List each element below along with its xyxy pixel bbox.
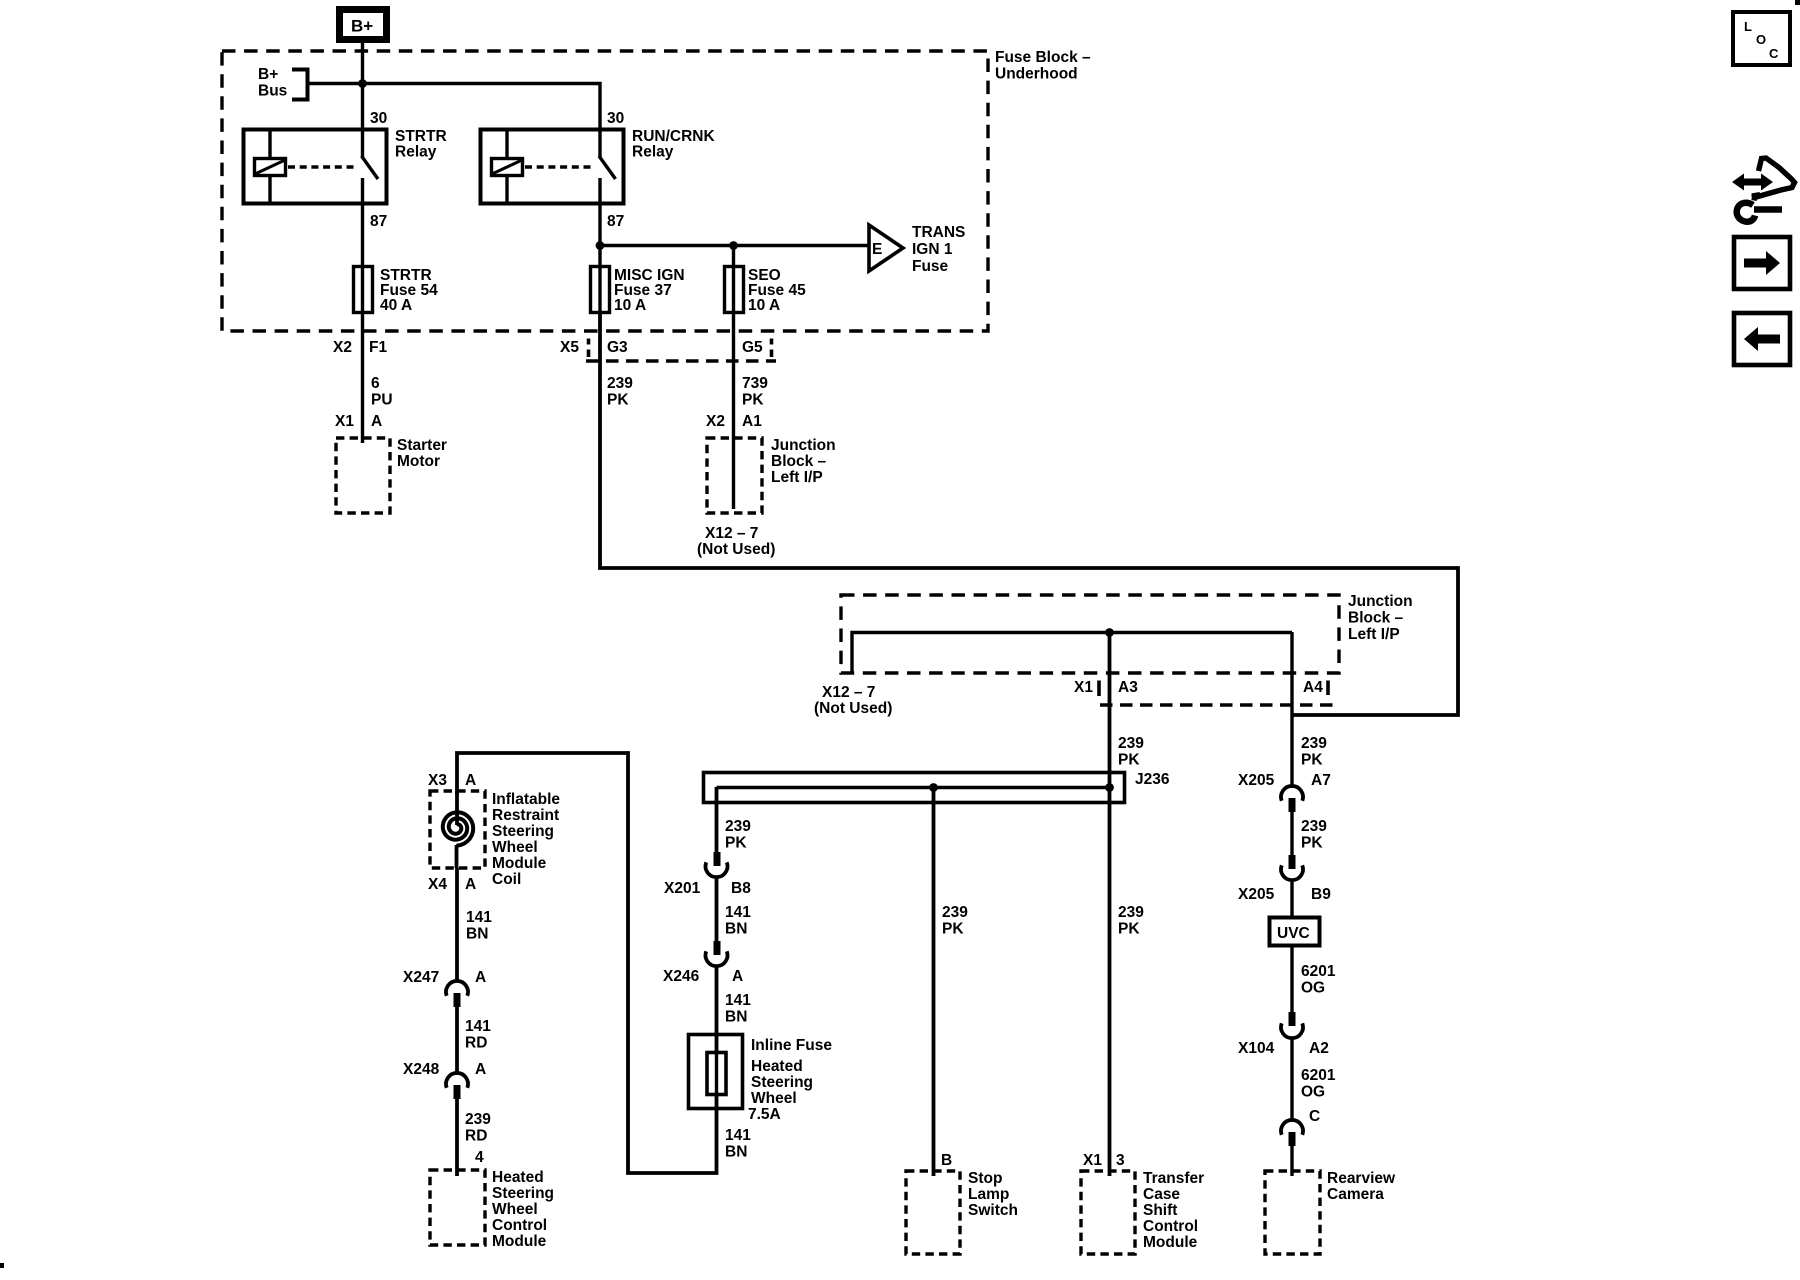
relay RUN/CRNK [481,129,624,204]
inflatable restraint steering wheel module coil [430,791,560,888]
svg-text:X201: X201 [664,880,701,897]
wire J236 left drop [715,787,719,853]
label 6201 OG upper [1301,963,1336,997]
label 239 PK transfer case [1118,904,1144,938]
node 87 junction [596,241,605,250]
wire A3 down to J236 [1108,632,1112,788]
svg-text:(Not Used): (Not Used) [697,541,775,558]
svg-text:OG: OG [1301,980,1325,997]
wire RUN/CRNK 87 down to MISC IGN fuse [598,203,601,267]
svg-text:Steering: Steering [751,1074,813,1091]
svg-text:A3: A3 [1118,679,1138,696]
svg-text:TRANS: TRANS [912,224,965,241]
svg-text:PK: PK [1118,752,1140,769]
rearview camera [1265,1170,1396,1254]
relay STRTR [244,129,387,204]
svg-text:PK: PK [742,392,764,409]
wire B+ down to STRTR relay pin 30 [361,43,364,130]
svg-text:PU: PU [371,392,393,409]
svg-text:87: 87 [607,213,624,230]
wire STRTR 87 to fuse 54 [361,203,364,267]
svg-text:3: 3 [1116,1152,1125,1169]
svg-text:Relay: Relay [632,144,674,161]
svg-text:X3: X3 [428,772,447,789]
svg-text:PK: PK [607,392,629,409]
svg-text:40 A: 40 A [380,297,412,314]
svg-text:B+: B+ [258,66,278,83]
fuse STRTR Fuse 54 40 A [354,266,439,314]
svg-text:PK: PK [725,835,747,852]
node J236 stop lamp tap [929,783,938,792]
svg-text:Stop: Stop [968,1170,1002,1187]
svg-text:739: 739 [742,375,768,392]
svg-text:Shift: Shift [1143,1202,1177,1219]
corner speck bottom left [0,1263,4,1268]
svg-text:Underhood: Underhood [995,66,1078,83]
wire inline fuse to coil feed loop [457,753,717,1173]
svg-text:B8: B8 [731,880,751,897]
svg-text:C: C [1769,46,1779,61]
off-page arrow E TRANS IGN 1 Fuse [869,224,965,275]
svg-text:X2: X2 [333,339,352,356]
svg-text:RUN/CRNK: RUN/CRNK [632,128,715,145]
svg-text:141: 141 [725,992,751,1009]
connector X104 A2 [1238,1012,1329,1057]
heated steering wheel control module [430,1169,554,1250]
wire SEO branch down [732,245,735,267]
wire J236 to transfer case module [1108,788,1112,1176]
wire to TRANS IGN 1 fuse arrow [600,244,869,247]
label 239 RD [465,1111,491,1145]
label 739 PK [742,375,768,409]
svg-text:239: 239 [725,818,751,835]
svg-text:30: 30 [607,110,624,127]
svg-text:G5: G5 [742,339,763,356]
wire coil to X247 [455,868,459,981]
svg-text:O: O [1756,32,1766,47]
svg-text:Fuse: Fuse [912,258,949,275]
svg-text:BN: BN [725,1009,747,1026]
svg-text:X1: X1 [335,413,354,430]
svg-text:X1: X1 [1083,1152,1102,1169]
wire MISC IGN long feed to junction block A4 [600,312,1458,715]
junction block left IP upper [707,437,836,513]
svg-text:Heated: Heated [751,1058,803,1075]
svg-text:Rearview: Rearview [1327,1170,1396,1187]
svg-text:Coil: Coil [492,871,521,888]
label X12-7 not used upper [697,525,775,558]
wire SEO fuse down to junction block A1 [732,312,735,509]
wire B+ bus horizontal to RUN/CRNK pin 30 [308,84,601,131]
svg-text:X246: X246 [663,968,700,985]
label STRTR Relay [395,128,447,161]
svg-text:239: 239 [1118,735,1144,752]
svg-text:Steering: Steering [492,823,554,840]
svg-text:B+: B+ [351,17,373,36]
label circuit 6 PU [371,375,393,409]
svg-text:A2: A2 [1309,1040,1329,1057]
svg-text:STRTR: STRTR [395,128,447,145]
connector X246 A [663,941,743,985]
connector X205 A7 [1281,786,1303,812]
svg-text:BN: BN [725,921,747,938]
wire X248 to control module [455,1099,459,1176]
svg-text:(Not Used): (Not Used) [814,700,892,717]
label X3 A [428,772,476,789]
svg-text:PK: PK [1301,835,1323,852]
wire A7 to B9 [1290,812,1293,856]
wire X201 to X246 [715,877,719,942]
svg-text:141: 141 [725,1127,751,1144]
svg-text:6: 6 [371,375,380,392]
svg-text:239: 239 [942,904,968,921]
svg-text:Control: Control [1143,1218,1198,1235]
svg-text:A4: A4 [1303,679,1323,696]
junction block left IP lower [841,593,1413,673]
svg-text:Transfer: Transfer [1143,1170,1204,1187]
svg-text:A1: A1 [742,413,762,430]
svg-text:Bus: Bus [258,83,287,100]
connector C [1281,1120,1303,1146]
wire STRTR fuse down to starter motor [361,312,364,443]
label 6201 OG lower [1301,1067,1336,1101]
node B+ bus junction [358,79,367,88]
svg-text:6201: 6201 [1301,963,1336,980]
svg-text:30: 30 [370,110,387,127]
svg-text:Module: Module [1143,1234,1198,1251]
label X4 A [428,876,476,893]
svg-text:Junction: Junction [771,437,836,454]
svg-text:X104: X104 [1238,1040,1275,1057]
back arrow box [1734,313,1790,365]
svg-text:A: A [475,1061,486,1078]
wire X104 to connector C [1290,1038,1293,1121]
svg-text:PK: PK [942,921,964,938]
wire X247 to X248 [455,1007,459,1073]
svg-text:Relay: Relay [395,144,437,161]
svg-text:X248: X248 [403,1061,440,1078]
svg-text:239: 239 [1301,818,1327,835]
wire C to rearview camera [1290,1146,1293,1176]
label 239 PK stop lamp [942,904,968,938]
svg-text:Wheel: Wheel [492,1201,538,1218]
inline fuse heated steering wheel 7.5A [689,1035,833,1124]
label RUN/CRNK Relay [632,128,715,161]
wire B9 to UVC [1290,880,1293,918]
svg-text:239: 239 [607,375,633,392]
svg-text:PK: PK [1118,921,1140,938]
label X12-7 not used lower [814,684,892,717]
svg-text:X12 – 7: X12 – 7 [822,684,875,701]
label X2 F1 [333,339,387,356]
svg-text:Inflatable: Inflatable [492,791,560,808]
wire UVC to X104 [1290,946,1293,1013]
svg-text:IGN 1: IGN 1 [912,241,953,258]
stop lamp switch [906,1170,1018,1254]
label 141 BN coil [466,909,492,943]
label 239 PK at A3 [1118,735,1144,769]
svg-text:Left I/P: Left I/P [1348,626,1400,643]
wire A4 down to camera branch [1290,632,1293,788]
svg-text:239: 239 [1118,904,1144,921]
label X1 3 [1083,1152,1125,1169]
svg-text:PK: PK [1301,752,1323,769]
svg-text:Lamp: Lamp [968,1186,1009,1203]
svg-text:Inline Fuse: Inline Fuse [751,1037,832,1054]
label X2 A1 [706,413,762,430]
svg-text:X205: X205 [1238,886,1275,903]
svg-text:Module: Module [492,855,547,872]
svg-text:X205: X205 [1238,772,1275,789]
svg-text:B9: B9 [1311,886,1331,903]
hotlink scribble icon [1732,158,1795,222]
fuse SEO Fuse 45 10 A [725,266,807,314]
label 239 PK at A4 [1301,735,1327,769]
svg-text:10 A: 10 A [614,297,646,314]
label 239 PK heated steering feed [725,818,751,852]
svg-text:RD: RD [465,1035,487,1052]
svg-text:Fuse Block –: Fuse Block – [995,49,1091,66]
connector X205 B9 [1238,855,1331,903]
splice pack J236 [704,771,1170,803]
label 239 PK MISC IGN [607,375,633,409]
svg-text:A: A [371,413,382,430]
starter motor module [336,437,447,513]
svg-text:A: A [732,968,743,985]
svg-text:G3: G3 [607,339,628,356]
svg-text:141: 141 [465,1018,491,1035]
B+ terminal [340,10,387,40]
svg-text:Restraint: Restraint [492,807,559,824]
svg-text:Starter: Starter [397,437,447,454]
svg-text:141: 141 [725,904,751,921]
label 141 BN mid [725,992,751,1026]
node A3 junction [1105,628,1114,637]
label X1 A starter [335,413,382,430]
svg-text:239: 239 [1301,735,1327,752]
svg-text:Heated: Heated [492,1169,544,1186]
svg-text:X2: X2 [706,413,725,430]
svg-text:A: A [465,876,476,893]
label 141 RD [465,1018,491,1052]
svg-text:Wheel: Wheel [751,1090,797,1107]
Fuse Block - Underhood box [222,51,988,331]
svg-text:C: C [1309,1108,1320,1125]
svg-text:Control: Control [492,1217,547,1234]
corner speck top right [1795,0,1800,5]
label 239 PK camera [1301,818,1327,852]
node SEO branch junction [729,241,738,250]
svg-text:Motor: Motor [397,453,440,470]
label 141 BN below fuse [725,1127,751,1161]
svg-text:Left I/P: Left I/P [771,469,823,486]
transfer case shift control module [1081,1170,1204,1254]
svg-text:Steering: Steering [492,1185,554,1202]
svg-text:Block –: Block – [1348,610,1404,627]
label 141 BN upper [725,904,751,938]
svg-text:X12 – 7: X12 – 7 [705,525,758,542]
connector X5 strip [560,339,776,362]
connector X1 strip lower [1074,679,1335,705]
LOC legend box [1733,12,1790,65]
svg-text:6201: 6201 [1301,1067,1336,1084]
svg-text:A: A [475,969,486,986]
svg-text:A7: A7 [1311,772,1331,789]
svg-text:OG: OG [1301,1084,1325,1101]
svg-text:239: 239 [465,1111,491,1128]
svg-text:X1: X1 [1074,679,1093,696]
svg-text:Case: Case [1143,1186,1180,1203]
UVC in-line component [1270,918,1320,946]
connector X201 B8 [664,852,751,897]
svg-text:BN: BN [466,926,488,943]
svg-text:X4: X4 [428,876,447,893]
svg-text:J236: J236 [1135,771,1170,788]
svg-text:X247: X247 [403,969,439,986]
wire internal bus of junction block [852,633,1292,674]
forward arrow box [1734,237,1790,289]
node J236 right tap [1105,783,1114,792]
svg-text:A: A [465,772,476,789]
connector X247 A [403,969,486,1007]
svg-text:X5: X5 [560,339,579,356]
fuse MISC IGN Fuse 37 10 A [591,266,685,314]
svg-text:Junction: Junction [1348,593,1413,610]
svg-text:Module: Module [492,1233,547,1250]
svg-text:Switch: Switch [968,1202,1018,1219]
svg-text:E: E [872,241,882,258]
wire J236 to stop lamp switch [932,787,936,1176]
svg-text:UVC: UVC [1277,925,1310,942]
connector X248 A [403,1061,486,1099]
B+ Bus terminal bracket [258,66,308,100]
svg-text:Block –: Block – [771,453,827,470]
svg-text:Camera: Camera [1327,1186,1384,1203]
svg-text:BN: BN [725,1144,747,1161]
svg-text:7.5A: 7.5A [748,1106,781,1123]
svg-text:L: L [1744,19,1752,34]
svg-text:F1: F1 [369,339,387,356]
svg-text:10 A: 10 A [748,297,780,314]
svg-text:87: 87 [370,213,387,230]
svg-text:B: B [941,1152,952,1169]
wire X246 to inline fuse [715,966,719,1053]
svg-text:RD: RD [465,1128,487,1145]
label X205 A7 [1238,772,1331,789]
svg-text:141: 141 [466,909,492,926]
label Fuse Block - Underhood [995,49,1091,83]
svg-text:4: 4 [475,1149,484,1166]
svg-text:Wheel: Wheel [492,839,538,856]
